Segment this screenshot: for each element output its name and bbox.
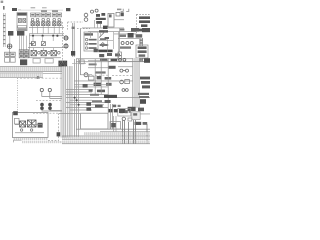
top right rows xyxy=(131,28,139,32)
rows right low xyxy=(138,93,149,95)
label low1 xyxy=(90,94,99,96)
junction square on dashed wire xyxy=(37,76,40,79)
ground symbol circle xyxy=(7,44,12,49)
vline tr xyxy=(119,28,121,52)
relay coil pair top xyxy=(40,88,51,91)
connector blobs below F1 xyxy=(8,31,13,36)
center header wire xyxy=(88,30,136,33)
module hatch base xyxy=(13,138,48,141)
wire m2 xyxy=(88,66,108,69)
main bus wires xyxy=(29,32,64,35)
wire m5 xyxy=(74,80,133,83)
vwires center cluster xyxy=(91,32,119,58)
motor M1 xyxy=(31,50,36,55)
label m3 xyxy=(96,71,106,73)
ECM dashed box xyxy=(136,14,150,37)
sensor cluster left xyxy=(99,54,104,57)
wire h63 xyxy=(72,62,86,65)
motor M2 xyxy=(41,50,46,55)
sensor X center xyxy=(71,51,75,56)
injector symbols row xyxy=(31,18,60,21)
left riser wire xyxy=(29,34,31,58)
igniter cluster xyxy=(96,13,106,24)
arrow m4 xyxy=(105,77,112,80)
wire pair center xyxy=(73,23,75,57)
dotted drop wire xyxy=(17,78,19,112)
wire under igniter xyxy=(82,27,104,30)
relay micro box xyxy=(118,108,131,116)
bits m7 xyxy=(89,89,93,92)
dashed wire right xyxy=(112,75,133,77)
boxes r1 xyxy=(105,37,109,39)
connector S on dashed edge xyxy=(57,132,61,136)
top right harness band vertical xyxy=(133,58,140,108)
label low2 xyxy=(92,100,102,102)
light boxes above band mid xyxy=(33,58,40,63)
junction dots bus xyxy=(74,97,80,106)
sensor pair right xyxy=(120,80,124,84)
coil box xyxy=(108,13,114,27)
tiny top annotations xyxy=(31,7,36,8)
right module pins xyxy=(111,104,113,129)
vwires m xyxy=(95,58,108,113)
text row r1 xyxy=(100,38,106,40)
relay blob tr xyxy=(128,33,134,38)
header label xyxy=(99,30,108,32)
diamond arrow xyxy=(101,43,105,47)
node B label xyxy=(66,8,70,11)
riser wires xyxy=(75,59,79,137)
motor M3 xyxy=(51,50,56,55)
solenoid pair S1 xyxy=(40,103,52,110)
wire r1 xyxy=(99,39,113,42)
knock sensor bar xyxy=(98,50,112,53)
wire top label link xyxy=(21,9,63,12)
wire coil out xyxy=(114,18,124,21)
connector stack CN1 xyxy=(19,50,28,58)
arrow m2 xyxy=(109,66,116,69)
module small box xyxy=(38,123,43,128)
terminal grid left xyxy=(5,52,16,56)
corner bits top xyxy=(113,105,117,108)
terminal circles right xyxy=(119,58,126,61)
battery circle 2 xyxy=(64,44,68,48)
switch bit xyxy=(128,118,132,121)
harness end box xyxy=(132,112,140,120)
bottom bus band 1 xyxy=(84,131,150,135)
cluster y108 xyxy=(128,107,136,111)
vertical harness bus A xyxy=(60,66,66,138)
lamp right low xyxy=(122,117,125,120)
slash wire xyxy=(99,31,106,38)
battery circle 1 xyxy=(64,36,68,40)
arrow into bus xyxy=(29,42,32,44)
wire y129 xyxy=(76,128,150,131)
dark box mid xyxy=(83,84,88,88)
mid bus wire xyxy=(28,46,64,49)
bottom-left module box xyxy=(12,111,48,137)
dark connector pair xyxy=(20,59,27,65)
relay dark bar low xyxy=(104,95,117,98)
label row tr xyxy=(120,46,131,48)
box m4 xyxy=(88,76,94,80)
M region: speedo wire xyxy=(88,59,108,62)
lower bus wire xyxy=(29,56,61,59)
ECM rows right xyxy=(140,77,150,80)
cluster low3 xyxy=(95,104,103,107)
ECU box center xyxy=(84,32,98,51)
dashed enclosure top xyxy=(68,22,90,30)
thermo cluster xyxy=(94,83,102,86)
page number mark xyxy=(1,1,4,3)
relay box lower right xyxy=(110,122,121,129)
vertical harness bus B xyxy=(67,66,73,138)
wire to circle xyxy=(80,73,92,76)
lamp circles tr xyxy=(121,42,133,45)
junction X-boxes at band corner xyxy=(59,61,67,66)
distributor circles xyxy=(84,9,98,21)
wire h107 xyxy=(88,106,108,109)
ECM pin rows xyxy=(139,16,150,31)
wire above module xyxy=(86,107,91,110)
rows far right low xyxy=(135,122,142,125)
ladder bus right xyxy=(140,38,142,62)
dashed module outline right xyxy=(33,113,59,140)
module X-relay 1 xyxy=(20,121,26,127)
wire band continuation xyxy=(43,72,62,75)
wire m6 xyxy=(74,83,108,86)
shield braid wire xyxy=(14,140,64,143)
condenser xyxy=(116,12,120,16)
enclosure dashed vline xyxy=(62,22,64,64)
diode D2 xyxy=(41,42,45,46)
label text T2 xyxy=(52,10,58,12)
speedo label xyxy=(100,58,107,60)
connector row y110 xyxy=(109,109,126,113)
bottom bus band 3 xyxy=(62,140,150,144)
hot wire right xyxy=(108,60,150,63)
verticals through bottom bands xyxy=(123,120,147,144)
node A label xyxy=(3,6,21,11)
wire tr2 xyxy=(118,37,139,40)
resistor squiggle xyxy=(120,69,129,72)
micro box pins xyxy=(114,116,116,131)
text r2 xyxy=(100,44,109,46)
wire tr xyxy=(114,33,136,36)
wire corner xyxy=(140,113,150,116)
small circles right low xyxy=(122,89,128,92)
stub wires from injectors xyxy=(33,26,60,41)
fuse block F1 xyxy=(17,13,27,31)
branch wires from bus xyxy=(59,90,150,114)
bus ladder left xyxy=(3,13,5,47)
bottom bus band 2 xyxy=(62,136,150,140)
box low2 xyxy=(105,100,111,103)
label m2 xyxy=(89,63,97,65)
diode D1 xyxy=(31,42,35,46)
module inner relay xyxy=(14,118,19,124)
module X-relay 2 xyxy=(27,120,36,127)
relay box tr xyxy=(136,45,148,58)
sensor m4 xyxy=(97,76,102,79)
wires under cluster xyxy=(76,57,150,60)
small relay boxes above band xyxy=(5,58,10,63)
ignition switch row boxes xyxy=(31,13,62,17)
dashed link xyxy=(36,100,62,102)
fuse box right edge xyxy=(144,58,150,63)
wire right mid xyxy=(118,65,133,68)
dashed m3 xyxy=(88,74,108,76)
junction dots xyxy=(32,35,59,37)
pigtail top right module xyxy=(86,102,91,105)
wire blob to ground xyxy=(9,36,11,44)
sensor box right xyxy=(115,53,120,56)
module wires xyxy=(15,123,43,126)
harness band lower xyxy=(0,73,43,78)
long riser wire xyxy=(80,29,82,75)
wire row under injectors xyxy=(29,26,64,29)
dashed wire low xyxy=(20,77,62,79)
circle on wire mid xyxy=(84,73,88,77)
diagnostic connector dashes xyxy=(121,9,129,12)
small box above band xyxy=(80,60,85,64)
arrow connector m1 xyxy=(111,59,118,61)
stacked pins tr xyxy=(118,52,121,55)
harness band upper xyxy=(0,66,62,72)
box right low2 xyxy=(140,99,146,104)
label tr xyxy=(119,35,126,37)
sensor box mid xyxy=(107,53,112,56)
igniter stems xyxy=(95,20,101,28)
label text T1 xyxy=(41,10,47,12)
right blank module xyxy=(81,113,108,129)
